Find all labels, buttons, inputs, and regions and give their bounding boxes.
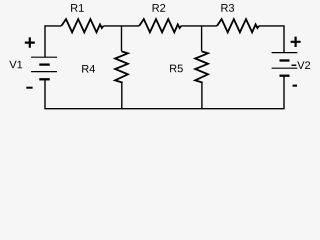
label R5 <box>170 65 183 73</box>
wire: V1 bottom stem + bottom rail + V2 bottom stem <box>45 76 284 109</box>
label R1 <box>71 4 84 12</box>
label V1 <box>9 61 22 69</box>
battery V1 plate long top <box>31 56 57 58</box>
V2 plus sign <box>291 37 301 47</box>
resistor R5 <box>195 51 208 82</box>
battery V2 plate short 1 <box>280 59 290 61</box>
V1 plus sign <box>25 37 35 47</box>
wire: top rail right segment (R3 to V2) <box>259 26 284 53</box>
battery V1 plate long bottom <box>31 71 57 73</box>
battery V1 plate short 2 <box>39 78 49 80</box>
label V2 <box>297 61 310 69</box>
wire: R4 bottom stem <box>121 82 123 108</box>
battery V2 plate short 2 <box>280 75 290 77</box>
resistor R1 <box>61 19 103 32</box>
resistor R2 <box>139 19 181 32</box>
node B stem wire (top rail to R5) <box>201 26 203 51</box>
label V2 dash <box>292 65 297 67</box>
wire: top rail R2 to R3 (through node B) <box>181 25 217 27</box>
node A stem wire (top rail to R4) <box>121 26 123 51</box>
wire: R5 bottom stem <box>201 82 203 108</box>
wire: top rail R1 to R2 (through node A) <box>103 25 139 27</box>
battery V2 plate long top <box>272 52 298 54</box>
wire: top rail left segment (V1 to R1) <box>45 26 61 57</box>
resistor R4 <box>115 51 128 82</box>
V1 minus sign <box>26 87 32 89</box>
resistor R3 <box>217 19 259 32</box>
label R4 <box>82 65 95 73</box>
battery V2 plate long bottom <box>272 67 298 69</box>
battery V1 plate short 1 <box>39 63 49 65</box>
label R3 <box>221 4 234 12</box>
label R2 <box>153 4 166 12</box>
V2 minus sign <box>293 85 297 87</box>
